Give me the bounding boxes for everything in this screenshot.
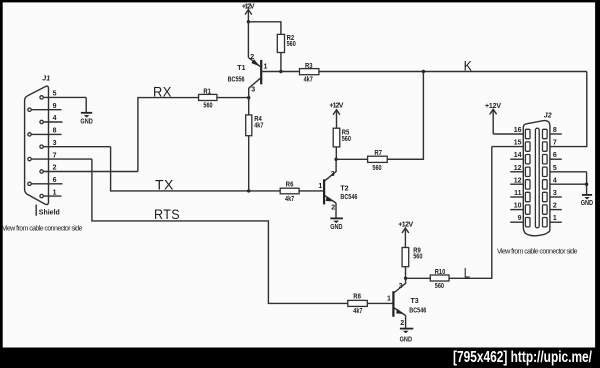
svg-text:3: 3: [251, 87, 255, 94]
svg-text:12: 12: [514, 177, 522, 184]
svg-text:16: 16: [514, 127, 522, 134]
wire T1 pin1 lead to R3: [262, 71, 299, 73]
wire RTS (J1 pin7 down, across, down, to R8): [92, 159, 348, 303]
J1 pin 6: [28, 177, 63, 186]
J2 pin 15: [492, 140, 530, 152]
svg-text:TX: TX: [155, 177, 174, 193]
svg-text:4k7: 4k7: [254, 122, 263, 129]
svg-text:4k7: 4k7: [285, 196, 294, 203]
resistor R8: [348, 293, 368, 315]
wire K line: [319, 71, 587, 73]
J2 pin 14: [510, 152, 530, 164]
svg-text:8: 8: [53, 128, 57, 135]
svg-text:7: 7: [553, 140, 557, 147]
wire R9 bottom to T3 collector node: [405, 267, 407, 279]
svg-text:BC556: BC556: [228, 76, 245, 83]
svg-text:3: 3: [553, 190, 557, 197]
svg-text:5: 5: [53, 91, 57, 98]
svg-text:RTS: RTS: [154, 206, 180, 222]
J2 pin 2: [543, 203, 562, 215]
svg-text:2: 2: [331, 204, 335, 211]
svg-text:3: 3: [331, 171, 335, 178]
svg-text:View from cable connector side: View from cable connector side: [2, 226, 83, 233]
svg-text:R3: R3: [305, 63, 313, 70]
power +12V (T3): [398, 221, 413, 247]
resistor R3: [300, 63, 319, 84]
wire R7 right to K branch: [387, 158, 423, 160]
J2 pin 3: [543, 190, 562, 202]
svg-text:R6: R6: [286, 182, 294, 189]
J2 pin 1: [543, 215, 562, 227]
wire TX (J1 pin3 down, across to R6): [111, 147, 281, 191]
svg-text:4: 4: [53, 115, 57, 122]
svg-text:+12V: +12V: [398, 221, 413, 228]
wire RX (J1 pin2 up to RX line): [138, 98, 199, 172]
svg-text:R8: R8: [353, 293, 361, 300]
wire K junction down to R7: [387, 72, 423, 160]
svg-text:9: 9: [518, 215, 522, 222]
wire L to J2 pin15: [449, 147, 492, 279]
svg-text:560: 560: [435, 283, 444, 290]
ground GND (T2): [330, 218, 343, 231]
node +12V rail junction: [247, 20, 250, 23]
watermark bar: [0, 348, 600, 368]
J2 center slot: [535, 128, 539, 228]
transistor T2 BC546: [318, 159, 357, 211]
svg-text:560: 560: [287, 41, 296, 48]
J2 pin 10: [510, 203, 530, 215]
svg-text:560: 560: [342, 136, 351, 143]
J2 pin 8: [543, 127, 562, 139]
svg-text:GND: GND: [330, 224, 342, 231]
J1 pin 9: [28, 103, 62, 112]
svg-text:T1: T1: [237, 65, 245, 72]
J1 pin 7: [28, 152, 92, 161]
wire L (collector node to R10): [406, 277, 431, 279]
wire J1 pin5 to ground: [85, 97, 87, 112]
node T3 collector junction: [404, 277, 407, 280]
resistor R7: [368, 150, 388, 172]
svg-text:4: 4: [553, 177, 557, 184]
J2 pin 16: [493, 127, 530, 139]
node J2 ground junction: [585, 183, 588, 186]
svg-text:2: 2: [400, 320, 404, 327]
svg-text:12: 12: [514, 165, 522, 172]
J2 pin 5: [543, 165, 587, 177]
J1 pin 5: [40, 91, 86, 100]
svg-text:15: 15: [514, 140, 522, 147]
svg-text:5: 5: [553, 165, 557, 172]
J2 pin 6: [543, 152, 562, 164]
resistor R2: [277, 34, 296, 52]
wire +12V rail to R2 branch: [248, 22, 281, 35]
connector J1 (DB9) body: [25, 86, 49, 204]
svg-text:R10: R10: [435, 269, 446, 276]
node RX junction: [247, 96, 250, 99]
J1 pin 1: [40, 189, 62, 198]
node TX/R4 junction: [247, 189, 250, 192]
svg-text:3: 3: [399, 283, 403, 290]
svg-text:6: 6: [553, 152, 557, 159]
J2 pin 13: [510, 165, 530, 177]
ground GND (T3): [400, 329, 414, 344]
transistor T3 BC546: [387, 278, 426, 327]
svg-text:2: 2: [553, 203, 557, 210]
resistor R1: [199, 88, 217, 109]
svg-text:14: 14: [514, 152, 522, 159]
svg-text:1: 1: [553, 215, 557, 222]
svg-text:GND: GND: [80, 118, 92, 125]
wire T2 collector node to R7: [336, 158, 368, 160]
wire R2 bottom to collector node: [280, 53, 282, 72]
svg-text:11: 11: [514, 190, 522, 197]
svg-text:GND: GND: [400, 336, 412, 343]
J1 pin 3: [40, 140, 111, 149]
wire R6 to T2 base: [299, 190, 323, 192]
svg-text:J1: J1: [42, 76, 50, 83]
svg-text:1: 1: [53, 189, 57, 196]
svg-text:7: 7: [53, 152, 57, 159]
wire J2 pin5/pin4 to ground: [586, 172, 588, 195]
node T2 collector junction: [334, 158, 337, 161]
svg-text:View from cable connector side: View from cable connector side: [497, 248, 578, 255]
svg-text:R1: R1: [203, 88, 211, 95]
svg-text:9: 9: [53, 103, 57, 110]
svg-text:560: 560: [203, 103, 212, 110]
node K/R7 junction: [422, 70, 425, 73]
svg-text:Shield: Shield: [39, 210, 60, 217]
resistor R6: [280, 182, 299, 203]
svg-text:4k7: 4k7: [353, 308, 362, 315]
ground GND (J1): [80, 113, 92, 126]
resistor R5: [333, 128, 351, 147]
wire T3 emitter to ground: [405, 316, 407, 329]
J1 shield lead: [35, 205, 37, 216]
node R2/R3 junction: [279, 70, 282, 73]
svg-text:1: 1: [264, 63, 268, 70]
svg-text:BC546: BC546: [340, 194, 357, 201]
J1 pin 2: [40, 165, 138, 174]
power +12V (T1): [242, 3, 255, 22]
svg-text:T2: T2: [340, 185, 348, 192]
svg-text:[795x462] http://upic.me/: [795x462] http://upic.me/: [453, 349, 593, 366]
svg-text:8: 8: [553, 127, 557, 134]
svg-text:GND: GND: [581, 200, 593, 207]
connector J2 (16-pin) body: [523, 121, 550, 236]
svg-text:10: 10: [514, 203, 522, 210]
wire R4 top: [248, 98, 250, 115]
J1 pin 4: [40, 115, 63, 124]
svg-text:2: 2: [250, 54, 254, 61]
ground GND (J2): [581, 195, 593, 207]
wire R4 bottom to TX line: [248, 136, 250, 191]
svg-text:6: 6: [53, 177, 57, 184]
transistor T1 BC556: [228, 54, 268, 98]
wire R5 bottom to T2 collector node: [335, 147, 337, 159]
wire K down to J2 pin7: [550, 72, 587, 147]
J1 pin 8: [28, 128, 62, 136]
J2 pin 9: [510, 215, 530, 227]
resistor R10: [430, 269, 449, 290]
J2 pin 12: [510, 177, 530, 189]
svg-text:T3: T3: [411, 298, 419, 305]
power +12V (T2): [329, 102, 343, 128]
power +12V (J2 pin 16): [485, 103, 501, 134]
svg-text:1: 1: [387, 296, 391, 303]
J2 pin 11: [510, 190, 530, 202]
resistor R4: [246, 115, 264, 136]
svg-text:3: 3: [53, 140, 57, 147]
wire T2 emitter to ground: [335, 203, 337, 218]
svg-text:R7: R7: [374, 150, 382, 157]
wire +12V down to T1 emitter: [247, 22, 249, 58]
svg-text:560: 560: [413, 254, 422, 261]
svg-text:BC546: BC546: [409, 307, 426, 314]
J2 pin 7: [543, 140, 557, 152]
svg-text:K: K: [464, 58, 473, 74]
J2 pin 4: [543, 177, 587, 189]
wire R1 to T1 base node: [217, 97, 249, 99]
svg-text:4k7: 4k7: [304, 77, 313, 84]
svg-text:560: 560: [372, 165, 381, 172]
svg-text:J2: J2: [544, 113, 552, 120]
resistor R9: [402, 248, 422, 267]
svg-text:1: 1: [318, 183, 322, 190]
svg-text:RX: RX: [153, 84, 172, 100]
wire R8 to T3 base: [367, 302, 392, 304]
svg-text:2: 2: [53, 165, 57, 172]
svg-text:+12V: +12V: [329, 102, 343, 109]
